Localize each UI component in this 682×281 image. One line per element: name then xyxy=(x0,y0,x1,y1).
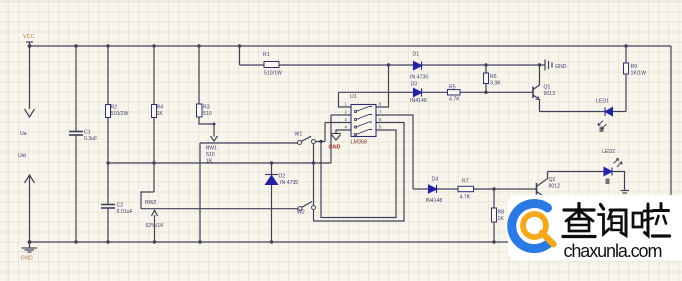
svg-text:R3: R3 xyxy=(203,105,210,111)
svg-text:GND: GND xyxy=(329,145,341,151)
svg-text:6: 6 xyxy=(379,117,382,122)
svg-text:IN4148: IN4148 xyxy=(426,198,443,204)
svg-text:52%/1K: 52%/1K xyxy=(146,223,165,229)
svg-text:LED2: LED2 xyxy=(602,149,615,155)
svg-text:510: 510 xyxy=(203,111,212,117)
svg-text:C1: C1 xyxy=(84,130,91,136)
svg-text:4.7K: 4.7K xyxy=(449,97,460,103)
svg-text:3.3K: 3.3K xyxy=(490,81,501,87)
svg-text:D1: D1 xyxy=(413,52,420,58)
svg-text:chaxunla.com: chaxunla.com xyxy=(564,241,662,261)
svg-text:4.7K: 4.7K xyxy=(460,195,471,201)
svg-text:2: 2 xyxy=(345,110,348,115)
svg-text:D3: D3 xyxy=(411,82,418,88)
svg-text:8: 8 xyxy=(379,102,382,107)
svg-text:D4: D4 xyxy=(432,177,439,183)
svg-text:IN4148: IN4148 xyxy=(410,98,427,104)
svg-text:LED1: LED1 xyxy=(596,99,609,105)
svg-text:510/2W: 510/2W xyxy=(111,111,129,117)
svg-text:LM358: LM358 xyxy=(351,140,367,146)
svg-text:VCC: VCC xyxy=(23,34,35,40)
svg-text:R7: R7 xyxy=(462,179,469,185)
svg-text:5: 5 xyxy=(379,125,382,130)
svg-text:IN 4735: IN 4735 xyxy=(280,180,298,186)
svg-text:Uid: Uid xyxy=(18,153,26,159)
svg-text:Q2: Q2 xyxy=(549,177,556,183)
svg-text:Q1: Q1 xyxy=(544,85,551,91)
svg-text:R5: R5 xyxy=(449,85,456,91)
svg-text:510/1W: 510/1W xyxy=(264,71,282,77)
svg-text:IN 4735: IN 4735 xyxy=(410,75,428,81)
svg-text:9013: 9013 xyxy=(544,91,556,97)
svg-text:R9: R9 xyxy=(631,64,638,70)
svg-text:RW1: RW1 xyxy=(206,146,218,152)
svg-text:1: 1 xyxy=(345,102,348,107)
svg-text:Ua: Ua xyxy=(20,131,27,137)
svg-text:7: 7 xyxy=(379,110,382,115)
svg-text:R1: R1 xyxy=(263,52,270,58)
svg-text:U1: U1 xyxy=(350,94,357,100)
svg-text:GND: GND xyxy=(555,64,567,70)
svg-text:W2: W2 xyxy=(297,210,305,216)
svg-text:1K: 1K xyxy=(498,216,505,222)
svg-text:0.3uF: 0.3uF xyxy=(84,136,97,142)
svg-text:GND: GND xyxy=(21,256,33,262)
svg-text:9012: 9012 xyxy=(549,184,561,190)
svg-text:R8: R8 xyxy=(498,210,505,216)
svg-text:R4: R4 xyxy=(157,105,164,111)
svg-text:W1: W1 xyxy=(295,132,303,138)
svg-text:R2: R2 xyxy=(111,105,118,111)
svg-text:D2: D2 xyxy=(279,174,286,180)
svg-text:C2: C2 xyxy=(117,203,124,209)
svg-text:1K/1W: 1K/1W xyxy=(631,71,647,77)
svg-text:1K: 1K xyxy=(157,111,164,117)
svg-text:R6: R6 xyxy=(490,74,497,80)
svg-text:510: 510 xyxy=(206,152,215,158)
svg-text:3: 3 xyxy=(345,117,348,122)
svg-text:4: 4 xyxy=(345,125,348,130)
svg-text:1K: 1K xyxy=(206,159,213,165)
svg-text:RW2: RW2 xyxy=(145,200,157,206)
svg-text:0.01uF: 0.01uF xyxy=(117,209,133,215)
